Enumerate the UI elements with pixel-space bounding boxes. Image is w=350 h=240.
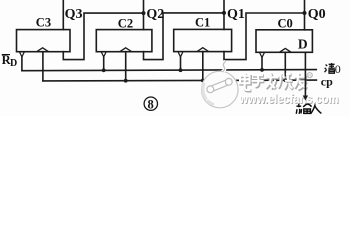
svg-text:D: D <box>10 58 17 69</box>
svg-text:D: D <box>298 37 308 52</box>
svg-text:cp: cp <box>321 74 333 88</box>
svg-text:Q3: Q3 <box>65 7 83 22</box>
svg-text:C2: C2 <box>118 16 133 30</box>
svg-text:0: 0 <box>335 62 341 76</box>
svg-text:R: R <box>308 73 312 79</box>
svg-text:C0: C0 <box>278 17 293 31</box>
svg-text:www.elecfans.com: www.elecfans.com <box>239 92 339 106</box>
svg-text:Q2: Q2 <box>146 7 164 22</box>
svg-text:8: 8 <box>148 97 154 111</box>
svg-text:Q1: Q1 <box>227 7 245 22</box>
svg-text:C1: C1 <box>195 15 210 29</box>
svg-text:Q0: Q0 <box>308 7 326 22</box>
svg-text:C3: C3 <box>36 15 51 29</box>
